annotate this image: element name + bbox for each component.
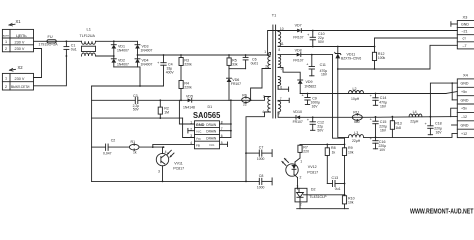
svg-text:2: 2: [5, 85, 7, 89]
fuse FU: [39, 35, 59, 47]
svg-text:10k: 10k: [348, 201, 354, 205]
svg-text:L4: L4: [413, 110, 417, 114]
svg-text:DRAIN: DRAIN: [206, 123, 217, 127]
svg-text:ЦЕПЬ: ЦЕПЬ: [16, 34, 27, 38]
svg-text:1000: 1000: [257, 186, 265, 190]
resistor R12: [372, 46, 385, 70]
wire pin11 to X3 area: [278, 45, 374, 47]
wire long node y100.3 left part: [92, 99, 136, 101]
svg-text:16V: 16V: [380, 104, 387, 108]
diode VD4: [135, 58, 152, 67]
diode VD6: [227, 78, 242, 100]
svg-text:R1: R1: [131, 140, 136, 144]
wire primary pin2 L-path: [251, 69, 271, 101]
svg-text:10k: 10k: [348, 150, 354, 154]
capacitor C6: [243, 54, 258, 69]
wire pin9 line: [278, 112, 296, 117]
diode VD7: [293, 24, 457, 40]
svg-text:L1: L1: [87, 27, 92, 32]
inductor L3: [348, 131, 363, 143]
svg-text:22μH: 22μH: [410, 120, 419, 124]
svg-text:C18: C18: [435, 121, 442, 125]
wire X3 GND stub: [451, 22, 457, 27]
wire Vcc riser: [183, 118, 195, 137]
svg-text:L3: L3: [354, 131, 358, 135]
svg-text:ст: ст: [463, 37, 467, 41]
svg-text:1k: 1k: [332, 150, 336, 154]
resistor R8: [325, 144, 335, 183]
transformer T1: [272, 14, 276, 119]
resistor R4: [179, 81, 192, 101]
wire primary bottom rail y181.4: [92, 180, 259, 182]
svg-text:16V: 16V: [380, 128, 387, 132]
wire X2.2 riser to C1 bottom node: [66, 55, 68, 57]
svg-text:+5v: +5v: [461, 107, 467, 111]
capacitor C3: [133, 94, 140, 112]
diode VD5: [183, 94, 242, 109]
svg-text:16V: 16V: [312, 105, 319, 109]
resistor R3: [179, 54, 192, 80]
svg-text:1N4007: 1N4007: [141, 48, 153, 52]
inductor L2: [348, 87, 363, 101]
svg-text:N.C.: N.C.: [210, 143, 216, 147]
svg-text:1791SO–2A: 1791SO–2A: [39, 43, 59, 47]
svg-text:16V: 16V: [321, 73, 328, 77]
svg-text:C2: C2: [111, 139, 116, 143]
svg-text:2: 2: [300, 203, 302, 207]
capacitor C9: [302, 93, 321, 109]
wire L1 top to bridge: [96, 40, 138, 42]
svg-text:PC817: PC817: [173, 167, 184, 171]
wire minus rail y86: [92, 85, 164, 87]
wire X4 row4 riser: [451, 108, 458, 117]
svg-text:100k: 100k: [378, 56, 386, 60]
svg-text:+5v: +5v: [461, 90, 467, 94]
svg-text:0,047: 0,047: [103, 151, 112, 155]
svg-text:2: 2: [300, 176, 302, 180]
svg-text:ВЫКЛ.СЕТИ: ВЫКЛ.СЕТИ: [11, 85, 30, 89]
svg-text:BZX79–C5V6: BZX79–C5V6: [341, 57, 361, 61]
diode VD1: [111, 41, 129, 59]
wire L1 bottom to bridge chain A mid: [96, 55, 114, 57]
svg-text:1: 1: [5, 40, 7, 44]
svg-text:C11: C11: [320, 63, 326, 67]
wire rail into pin1: [268, 53, 271, 56]
svg-text:DRAIN: DRAIN: [206, 130, 217, 134]
svg-text:4: 4: [165, 150, 167, 154]
svg-text:FR107: FR107: [293, 35, 303, 39]
svg-text:3: 3: [263, 95, 265, 99]
svg-text:D1: D1: [208, 105, 213, 109]
svg-text:4: 4: [190, 141, 192, 145]
wire pin2 stub: [269, 68, 271, 70]
svg-text:230 V: 230 V: [15, 77, 25, 81]
capacitor C15: [370, 116, 387, 137]
wire aux pin4 path down: [246, 112, 270, 181]
capacitor C16: [370, 136, 387, 152]
svg-text:33k: 33k: [232, 62, 238, 66]
svg-text:10V: 10V: [379, 148, 386, 152]
diode VD8: [293, 49, 332, 63]
transformer primary winding 1-2: [264, 50, 270, 69]
svg-text:50V: 50V: [317, 128, 324, 132]
resistor R9: [342, 144, 353, 195]
svg-text:1: 1: [5, 77, 7, 81]
svg-text:SA0565: SA0565: [193, 111, 221, 120]
capacitor C13: [327, 176, 344, 191]
svg-text:VD9: VD9: [306, 80, 313, 84]
wire X1.1 to fuse: [34, 40, 48, 42]
zener VD11: [335, 46, 362, 70]
diode VD10: [293, 110, 353, 124]
svg-text:230 V: 230 V: [15, 47, 25, 51]
wire TL431 ref to divider: [307, 194, 345, 196]
capacitor C14: [370, 93, 387, 109]
svg-text:1N4148: 1N4148: [183, 106, 195, 110]
capacitor C18: [425, 116, 443, 135]
svg-text:22: 22: [243, 103, 247, 107]
svg-text:Vcc: Vcc: [196, 136, 202, 140]
svg-text:50V: 50V: [133, 108, 140, 112]
diode VD9: [298, 80, 317, 94]
svg-text:GND: GND: [461, 82, 469, 86]
svg-text:R8: R8: [331, 146, 336, 150]
resistor R5: [227, 54, 238, 69]
svg-text:C8: C8: [259, 174, 264, 178]
capacitor C7: [246, 146, 272, 162]
wire X4 row1 gnd branch: [430, 83, 457, 117]
svg-text:L2: L2: [353, 87, 357, 91]
resistor R6: [242, 93, 251, 106]
svg-text:1N4007: 1N4007: [117, 63, 129, 67]
wire C3 to R2/R4: [138, 99, 188, 101]
transformer aux winding 3-4: [262, 95, 270, 114]
svg-text:1M: 1M: [164, 111, 169, 115]
wire fuse to C1 node and L1: [56, 40, 81, 42]
svg-text:1000: 1000: [257, 157, 265, 161]
optocoupler VV11 (PC817 transistor side): [156, 147, 184, 181]
transformer secondary winding 10-11: [278, 27, 284, 47]
wire bottom rail tl431: [297, 208, 349, 210]
capacitor C10: [307, 30, 325, 48]
TL431 D2: [295, 185, 327, 209]
wire drain bus pins 8,7,6: [220, 100, 232, 137]
capacitor C8: [257, 174, 272, 190]
wire +12 to X4 row7: [364, 133, 458, 137]
svg-text:–7: –7: [463, 44, 467, 48]
svg-text:X2: X2: [18, 65, 24, 70]
wire X3 row3 riser: [375, 38, 458, 47]
diode VD2: [111, 58, 129, 67]
wire fb top rail y144.4: [300, 143, 345, 145]
svg-text:VD7: VD7: [295, 24, 302, 28]
IC D1 SA0565: [190, 105, 223, 149]
svg-text:–12: –12: [461, 115, 467, 119]
svg-text:R11: R11: [353, 110, 359, 114]
wire X4 row6 stub: [452, 124, 458, 126]
wire bridge bottom rail: [114, 67, 140, 86]
svg-text:T1: T1: [272, 14, 276, 18]
svg-text:1N5822: 1N5822: [304, 85, 316, 89]
connector X4: [457, 73, 474, 138]
left frame vertical (primary common): [91, 86, 93, 181]
svg-text:D2: D2: [311, 188, 316, 192]
transformer secondary winding 6 (floating top): [278, 77, 289, 92]
svg-text:2: 2: [265, 65, 267, 69]
svg-text:X3: X3: [463, 14, 469, 19]
capacitor C1: [64, 41, 77, 56]
svg-text:–21: –21: [462, 30, 468, 34]
svg-text:8: 8: [278, 48, 280, 52]
svg-text:GND: GND: [461, 23, 469, 27]
svg-text:3: 3: [190, 134, 192, 138]
svg-text:VV12: VV12: [308, 165, 317, 169]
capacitor C2: [103, 139, 115, 156]
wire clamp join: [229, 68, 246, 70]
wire Vcc feed y118.1: [92, 117, 183, 119]
svg-text:1N4007: 1N4007: [117, 48, 129, 52]
wire pin10 stub: [277, 31, 279, 32]
wire IC pin2 nc stub: [188, 128, 195, 133]
resistor R10: [342, 194, 354, 209]
svg-text:1N4007: 1N4007: [141, 63, 153, 67]
svg-text:1: 1: [190, 121, 192, 125]
svg-text:C7: C7: [259, 146, 264, 150]
svg-text:GND: GND: [461, 124, 469, 128]
svg-text:FR107: FR107: [293, 120, 303, 124]
svg-text:220: 220: [303, 150, 309, 154]
svg-text:конт: конт: [3, 34, 10, 38]
svg-text:2: 2: [5, 47, 7, 51]
svg-text:FB: FB: [196, 143, 200, 147]
svg-text:0u1: 0u1: [335, 187, 341, 191]
svg-text:16V: 16V: [436, 130, 443, 134]
wire main rail y55: [138, 54, 268, 56]
wire GND pin riser: [179, 100, 194, 124]
resistor R11: [352, 110, 362, 124]
resistor R7: [298, 144, 309, 158]
inductor L1: [80, 27, 96, 57]
capacitor C11: [306, 54, 328, 77]
svg-text:0u1: 0u1: [71, 48, 77, 52]
wire +12 vertical B from VD8 line: [338, 69, 349, 137]
svg-text:0u01: 0u01: [251, 62, 259, 66]
svg-text:+12: +12: [461, 132, 467, 136]
wire VD11/R12 bottom line to X3 row4: [338, 45, 458, 69]
wire pin8 to VD8: [278, 54, 297, 56]
svg-text:WWW.REMONT-AUD.NET: WWW.REMONT-AUD.NET: [410, 206, 474, 215]
svg-text:11: 11: [280, 42, 284, 46]
svg-text:N.C.: N.C.: [197, 129, 203, 133]
resistor R13: [390, 116, 401, 138]
svg-text:FR107: FR107: [231, 82, 241, 86]
svg-text:FR107: FR107: [293, 59, 303, 63]
svg-text:TLF12UA: TLF12UA: [80, 34, 96, 38]
transformer secondary winding 7-9: [278, 97, 289, 116]
svg-text:3: 3: [296, 185, 298, 189]
wire FB riser: [153, 144, 195, 147]
svg-text:C13: C13: [332, 176, 339, 180]
wire gnd bus y117 to X4: [362, 116, 457, 119]
connector X2: [2, 65, 33, 90]
svg-text:VD8: VD8: [295, 49, 302, 53]
wire snubber riser pin1 to top: [268, 31, 298, 56]
optocoupler VV12 (PC817 LED side): [282, 158, 318, 189]
svg-text:X1: X1: [16, 19, 22, 24]
wire +5 rail y93.5: [300, 93, 446, 95]
connector X3: [457, 14, 474, 49]
wire X1.2 down to X2.1: [34, 49, 42, 78]
connector X1: [2, 19, 33, 52]
svg-text:VD5: VD5: [186, 94, 193, 98]
svg-text:400V: 400V: [166, 71, 175, 75]
svg-text:DRAIN: DRAIN: [206, 136, 217, 140]
svg-text:3: 3: [158, 169, 160, 173]
svg-text:220k: 220k: [184, 86, 192, 90]
diode VD3: [135, 41, 152, 59]
capacitor C12: [307, 116, 324, 132]
svg-text:R13: R13: [395, 121, 402, 125]
svg-text:1: 1: [264, 50, 266, 54]
svg-text:VV11: VV11: [174, 161, 183, 165]
wire R6 to pin 3 of T1: [250, 97, 271, 101]
wire pin5 line y67.4: [278, 67, 300, 80]
svg-text:R6: R6: [242, 93, 247, 97]
resistor R2: [158, 99, 169, 119]
inductor L4: [409, 110, 422, 124]
wire +5 sense vertical A: [333, 55, 345, 145]
svg-text:230 V: 230 V: [15, 40, 25, 44]
capacitor C4: [157, 54, 174, 86]
svg-text:50V: 50V: [318, 40, 325, 44]
svg-text:4: 4: [262, 110, 264, 114]
svg-text:R9: R9: [348, 146, 353, 150]
resistor R1: [129, 140, 163, 155]
svg-text:PC817: PC817: [307, 170, 318, 174]
svg-text:GND: GND: [461, 98, 469, 102]
svg-text:560: 560: [354, 120, 360, 124]
transformer secondary winding 8-5: [278, 48, 282, 71]
svg-text:GND: GND: [196, 122, 205, 127]
svg-text:1k: 1k: [133, 151, 137, 155]
svg-text:1k8: 1k8: [395, 126, 401, 130]
svg-text:X4: X4: [463, 73, 469, 78]
svg-text:VD10: VD10: [293, 110, 302, 114]
svg-text:C3: C3: [133, 94, 138, 98]
svg-text:TL431CLP: TL431CLP: [309, 195, 327, 199]
svg-text:FU: FU: [48, 35, 53, 39]
svg-text:1: 1: [300, 159, 302, 163]
wire IC pin5 nc stub: [220, 142, 228, 147]
svg-text:10μH: 10μH: [351, 97, 360, 101]
wire C2/R1/FB node y147.1: [92, 146, 106, 148]
svg-text:220k: 220k: [184, 63, 192, 67]
wire X4 rows1-3 tie: [451, 82, 457, 100]
svg-text:22μH: 22μH: [352, 139, 361, 143]
